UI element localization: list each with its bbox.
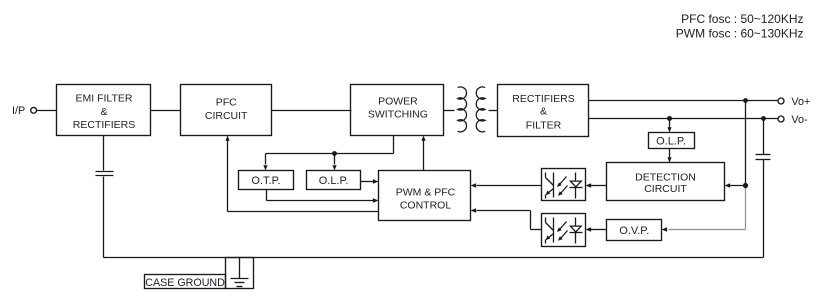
svg-text:O.L.P.: O.L.P. bbox=[656, 135, 686, 147]
svg-text:SWITCHING: SWITCHING bbox=[368, 109, 428, 121]
svg-text:PWM & PFC: PWM & PFC bbox=[396, 186, 456, 198]
svg-text:CONTROL: CONTROL bbox=[400, 200, 451, 212]
svg-text:I/P: I/P bbox=[12, 105, 25, 117]
svg-text:RECTIFIERS: RECTIFIERS bbox=[512, 93, 574, 105]
svg-text:O.L.P.: O.L.P. bbox=[319, 175, 349, 187]
svg-text:O.V.P.: O.V.P. bbox=[619, 225, 649, 237]
svg-text:CIRCUIT: CIRCUIT bbox=[205, 110, 248, 122]
svg-text:CASE GROUND: CASE GROUND bbox=[145, 277, 225, 289]
svg-text:RECTIFIERS: RECTIFIERS bbox=[73, 119, 135, 131]
svg-text:&: & bbox=[100, 106, 107, 118]
svg-text:CIRCUIT: CIRCUIT bbox=[644, 183, 687, 195]
svg-text:Vo-: Vo- bbox=[791, 114, 808, 126]
svg-text:Vo+: Vo+ bbox=[791, 96, 810, 108]
svg-text:FILTER: FILTER bbox=[526, 119, 562, 131]
svg-text:DETECTION: DETECTION bbox=[635, 172, 696, 184]
svg-text:PWM fosc : 60~130KHz: PWM fosc : 60~130KHz bbox=[676, 27, 804, 41]
svg-text:O.T.P.: O.T.P. bbox=[251, 175, 280, 187]
svg-text:EMI FILTER: EMI FILTER bbox=[76, 93, 133, 105]
svg-text:POWER: POWER bbox=[378, 95, 418, 107]
svg-text:PFC: PFC bbox=[216, 97, 237, 109]
svg-text:&: & bbox=[540, 106, 547, 118]
svg-text:PFC fosc : 50~120KHz: PFC fosc : 50~120KHz bbox=[681, 12, 803, 26]
